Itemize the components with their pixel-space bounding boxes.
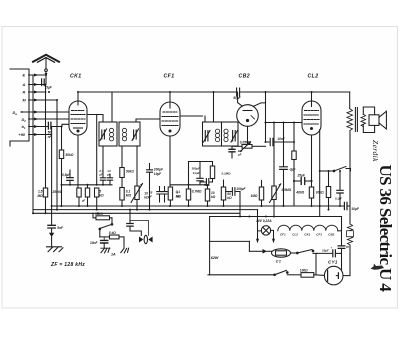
bus line A y=206 — [52, 205, 344, 207]
wire mains link — [315, 253, 317, 274]
wire CL2 plate riser — [311, 92, 313, 101]
capacitor 3uF — [280, 123, 288, 207]
svg-text:kΩ: kΩ — [211, 195, 216, 199]
wire terminal row D2 — [29, 118, 69, 120]
svg-text:10nF: 10nF — [277, 137, 285, 141]
wire left long vertical x=33 — [32, 75, 34, 213]
wire C1 branch — [210, 240, 250, 242]
transformer secondary winding — [361, 114, 366, 127]
svg-text:CF1: CF1 — [164, 74, 175, 80]
capacitor 50nF inline — [48, 122, 51, 129]
wire can1 to CF1 grid — [136, 119, 160, 122]
wire bus A to cap — [347, 205, 350, 207]
potentiometer 10kohm volume — [131, 184, 143, 210]
svg-text:kΩ: kΩ — [227, 196, 232, 200]
svg-text:µF: µF — [106, 173, 111, 177]
resistor 480ohm — [309, 187, 313, 206]
capacitor 10nF h right — [266, 138, 295, 145]
capacitor 100uF h — [226, 188, 240, 217]
wire rail drop to IF can 2 — [213, 92, 215, 122]
tube CK1 — [69, 101, 87, 135]
svg-text:-3µF: -3µF — [289, 168, 297, 172]
svg-text:C1: C1 — [276, 259, 282, 263]
wire connector h y=184.8 left — [62, 184, 113, 186]
svg-text:200µF: 200µF — [153, 167, 164, 171]
ground 2 — [101, 248, 110, 253]
svg-text:+: + — [331, 246, 333, 250]
resistor 100ohm — [301, 273, 325, 278]
speaker driver — [369, 115, 379, 126]
wire can1 right bottom down — [121, 146, 123, 168]
svg-text:50kΩ: 50kΩ — [126, 170, 134, 174]
wire CF1 right to can2 — [180, 116, 205, 122]
speaker frame — [363, 107, 374, 133]
svg-text:Zerdik: Zerdik — [371, 140, 380, 162]
svg-text:10µF: 10µF — [322, 248, 329, 252]
capacitor h mid — [200, 179, 213, 186]
svg-text:10nF: 10nF — [90, 241, 98, 245]
wire screen drop x=96.7 — [96, 115, 98, 185]
wire grid line CB2 to CL2 y=122.5 — [266, 122, 303, 124]
IF transformer 2 right can — [222, 122, 239, 146]
wire connector h y=184.8 mid — [170, 184, 208, 186]
wire terminal row E — [29, 74, 46, 76]
resistor 10kohm — [205, 185, 209, 206]
capacitor 5uF on row A — [42, 79, 45, 86]
svg-text:MΩ: MΩ — [176, 194, 182, 198]
svg-text:MΩ: MΩ — [38, 194, 44, 198]
resistor 1Mohm b — [259, 181, 263, 207]
transformer core — [355, 108, 357, 132]
resistor 1Mohm under CF1 — [168, 187, 172, 206]
switch mains a — [291, 250, 318, 254]
svg-text:,5µF: ,5µF — [44, 86, 52, 90]
svg-text:0,7MΩ: 0,7MΩ — [192, 190, 202, 194]
wire vertical C1 feed — [248, 241, 250, 251]
ground 3 — [121, 237, 129, 253]
resistor 50kohm 3 — [221, 180, 225, 206]
svg-text:CL2: CL2 — [308, 74, 319, 80]
resistor 0,7Mohm — [186, 162, 190, 207]
fuse C1 — [249, 249, 290, 257]
svg-text:ZF = 128 kHz: ZF = 128 kHz — [50, 262, 85, 268]
svg-text:50pF: 50pF — [233, 96, 241, 100]
capacitor 0,1uF — [100, 175, 105, 185]
pickup plug symbols — [130, 221, 153, 244]
resistor right mid — [292, 151, 296, 206]
capacitor 0,5uF — [67, 170, 73, 185]
wire CK1 cathode down — [77, 135, 79, 188]
svg-text:30kΩ: 30kΩ — [95, 212, 103, 216]
tube CY1 — [324, 266, 343, 285]
svg-text:1MΩ: 1MΩ — [251, 194, 258, 198]
tube CB2 — [237, 92, 266, 126]
wire CL2 plate to transformer — [349, 92, 351, 109]
node arrows on terminal rows — [21, 74, 38, 137]
capacitor 25uF cathode pair — [157, 187, 167, 203]
svg-text:1A: 1A — [111, 253, 116, 257]
svg-text:10µF: 10µF — [351, 207, 360, 211]
svg-text:100µF: 100µF — [236, 187, 246, 191]
svg-text:A: A — [22, 83, 26, 87]
svg-text:1,0: 1,0 — [107, 169, 111, 173]
resistor mid a — [85, 185, 89, 206]
svg-text:0,1: 0,1 — [100, 169, 104, 173]
potentiometer 0,5Mohm — [270, 184, 281, 217]
wire CL2 cathode down — [311, 135, 313, 187]
wire bottom mains — [208, 274, 275, 276]
svg-text:10µF: 10µF — [154, 172, 162, 176]
svg-text:100Ω: 100Ω — [300, 269, 308, 273]
svg-text:CB2: CB2 — [328, 232, 334, 236]
svg-text:µF: µF — [148, 194, 153, 198]
wire terminal row M — [29, 99, 57, 101]
wire transformer down long — [349, 132, 351, 224]
svg-text:62W: 62W — [211, 256, 219, 260]
capacitor 200uF electrolytic 2 — [197, 162, 203, 185]
heater dropper zigzag — [347, 224, 354, 276]
svg-text:CB2: CB2 — [239, 74, 251, 80]
svg-text:CK1: CK1 — [304, 232, 310, 236]
wire CY1 right — [343, 275, 350, 277]
svg-text:0,1MΩ: 0,1MΩ — [222, 172, 232, 176]
bus line B y=209.6 — [33, 209, 258, 211]
wire terminal row Da — [21, 111, 69, 113]
resistor 50kohm (oscillator) — [59, 127, 63, 207]
terminal labels — [13, 74, 27, 138]
heater chain labels — [280, 232, 335, 236]
svg-text:30kΩ: 30kΩ — [316, 191, 324, 195]
svg-text:0,1µF: 0,1µF — [335, 197, 342, 201]
capacitor 100pF — [229, 146, 235, 158]
wire vertical x=51.6 — [51, 127, 53, 207]
wire switch row y=171 — [320, 170, 334, 172]
svg-text:0,1µF: 0,1µF — [193, 171, 200, 175]
capacitor 70uF mains — [338, 217, 345, 270]
svg-text:50kΩ: 50kΩ — [66, 153, 74, 157]
capacitor 200uF/10uF electrolytic — [147, 164, 153, 210]
wire CK1 plate to top rail — [78, 92, 170, 122]
capacitor 10nF pickup — [127, 210, 142, 236]
transformer primary winding — [347, 109, 353, 131]
svg-text:5 kΩ: 5 kΩ — [109, 231, 116, 235]
wire terminal row R — [29, 91, 46, 93]
antenna — [33, 55, 59, 85]
svg-text:MΩ: MΩ — [126, 193, 132, 197]
bus line D y=216.5 — [210, 216, 342, 218]
wire can1 bottom to cap 0,1uF — [102, 146, 104, 175]
capacitor 5nF ground branch — [48, 206, 55, 233]
svg-text:CF1: CF1 — [280, 232, 286, 236]
wire can to volume pot — [136, 146, 138, 186]
svg-text:kΩ: kΩ — [99, 193, 104, 197]
capacitor 10uF on bus A right — [344, 202, 347, 209]
wire vertical x=294 — [293, 123, 295, 152]
wire CK1 right to IF can 1 — [87, 115, 103, 123]
wire connector h y=161.5 — [189, 161, 213, 163]
svg-text:CY1: CY1 — [328, 259, 338, 264]
wire top rail y=92 — [170, 92, 350, 102]
resistor 1,5Mohm — [43, 188, 47, 213]
capacitor 1,0uF — [107, 175, 112, 185]
terminal box — [10, 69, 29, 146]
wire vertical x=57 — [56, 100, 58, 210]
capacitor 10uF inline mains — [318, 250, 342, 257]
bus line C y=213.3 — [33, 212, 240, 214]
switch block — [99, 224, 113, 237]
svg-text:0,5µF: 0,5µF — [62, 173, 71, 177]
svg-text:µF: µF — [99, 173, 104, 177]
tube CF1 — [160, 102, 180, 136]
svg-text:+90: +90 — [19, 133, 26, 137]
resistor 5kohm h — [100, 235, 124, 239]
wire CF1 bottom — [169, 136, 171, 187]
svg-text:pF: pF — [237, 153, 242, 157]
svg-text:480Ω: 480Ω — [295, 191, 304, 195]
svg-text:25µF: 25µF — [297, 173, 306, 177]
resistor 30kohm — [326, 171, 330, 210]
IF transformer 2 left can — [203, 122, 222, 146]
svg-text:US 36 Selectric U 4: US 36 Selectric U 4 — [376, 165, 395, 293]
ground main — [47, 237, 64, 252]
wire terminal row +90 — [29, 134, 52, 136]
lamp pilot — [256, 210, 275, 244]
resistor mid c — [210, 162, 214, 183]
svg-text:CL2: CL2 — [292, 232, 298, 236]
wire rail drop x=265.5 — [265, 92, 267, 142]
IF transformer 1 right can — [119, 122, 140, 146]
svg-text:0,05MΩ: 0,05MΩ — [240, 141, 252, 145]
svg-text:200µF: 200µF — [191, 166, 200, 170]
wire terminal row A — [29, 84, 46, 86]
svg-text:CF1: CF1 — [316, 232, 322, 236]
svg-text:10V 0,22A: 10V 0,22A — [256, 219, 272, 223]
capacitor 0,1uF tone — [337, 171, 343, 206]
tube CL2 — [302, 101, 321, 135]
svg-text:70: 70 — [346, 245, 350, 249]
resistor 5kohm — [95, 188, 99, 210]
IF transformer 1 left can — [99, 122, 117, 146]
potentiometer 0,05Mohm — [232, 142, 266, 152]
wire CL2 screen drop — [319, 130, 321, 217]
arrow mark — [49, 233, 54, 237]
svg-text:2500Ω: 2500Ω — [52, 190, 63, 194]
wire vertical x=45.5 from row A down — [45, 85, 47, 189]
svg-text:R: R — [23, 91, 26, 95]
svg-text:µF: µF — [81, 199, 86, 203]
resistor 50kohm 2 — [120, 168, 124, 207]
wire terminal row b1 — [29, 126, 48, 128]
capacitor 50pF inline — [237, 88, 240, 96]
svg-text:0,5MΩ: 0,5MΩ — [282, 188, 292, 192]
resistor 2500ohm — [77, 188, 81, 206]
wire CB2 cathode down — [247, 126, 249, 144]
capacitor 25uF inline — [294, 178, 312, 185]
wire mains feed left — [209, 217, 211, 275]
svg-text:CK1: CK1 — [70, 74, 82, 80]
switch tone — [333, 167, 350, 172]
switch mains b — [274, 270, 301, 275]
wire vertical x=274 to pot — [273, 123, 275, 187]
heater chain coils — [278, 225, 342, 231]
capacitor 10nF g — [101, 237, 108, 248]
resistor 30kohm h block — [93, 213, 112, 223]
printer mark arrow — [371, 264, 385, 270]
speaker cone — [379, 111, 386, 129]
